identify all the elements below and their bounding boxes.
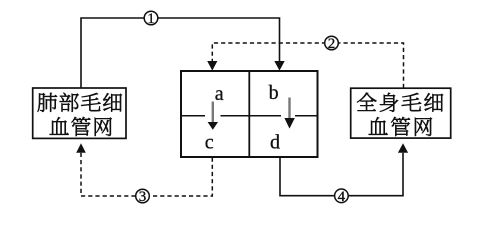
internal flow arrow a to c head xyxy=(208,122,218,130)
node circle 3 xyxy=(136,189,150,203)
svg-text:1: 1 xyxy=(147,11,155,27)
wire path 2: from systemic-capillary box top, up, left, down into chamber a (dashed) xyxy=(212,43,403,88)
internal flow arrow a to c (gray stem) xyxy=(212,102,214,123)
arrowhead of path 2 (down into a) xyxy=(207,61,217,71)
svg-text:3: 3 xyxy=(139,189,147,205)
lung box text line 2: xue guan wang xyxy=(50,117,112,136)
systemic capillary network box xyxy=(351,88,451,138)
arrowhead of path 3 (up into lung box) xyxy=(76,143,86,153)
svg-text:c: c xyxy=(205,132,214,154)
svg-text:a: a xyxy=(215,83,224,105)
arrowhead of path 1 (down into b) xyxy=(274,61,284,71)
heart horizontal wall middle segments xyxy=(221,115,282,117)
wire path 4: from chamber d bottom, down, right, up into systemic-capillary box (solid) xyxy=(280,153,403,196)
heart box (four chambers) xyxy=(181,71,318,157)
svg-text:b: b xyxy=(269,82,279,104)
svg-text:4: 4 xyxy=(338,189,346,205)
lung capillary network box xyxy=(33,88,126,138)
internal flow arrow b to d head xyxy=(284,118,294,129)
wire path 3: from chamber c bottom, down, left, up into lung-capillary box (dashed) xyxy=(81,153,212,196)
svg-text:2: 2 xyxy=(328,36,336,52)
arrowhead of path 4 (up into systemic box) xyxy=(398,143,408,153)
node circle 4 xyxy=(335,189,349,203)
heart horizontal wall left segment xyxy=(182,115,205,117)
svg-text:d: d xyxy=(270,132,280,154)
heart horizontal wall right segment xyxy=(295,115,317,117)
internal flow arrow b to d (gray stem) xyxy=(288,98,290,119)
systemic box text line 2: xue guan wang xyxy=(369,117,432,136)
wire path 1: from lung-capillary box top, up, right, down into chamber b (solid) xyxy=(81,18,280,88)
node circle 1 xyxy=(144,11,158,25)
lung box text line 1: fei bu mao xi xyxy=(38,93,122,112)
node circle 2 xyxy=(325,36,339,50)
systemic box text line 1: quan shen mao xi xyxy=(357,93,443,112)
heart septum vertical wall xyxy=(248,71,250,157)
